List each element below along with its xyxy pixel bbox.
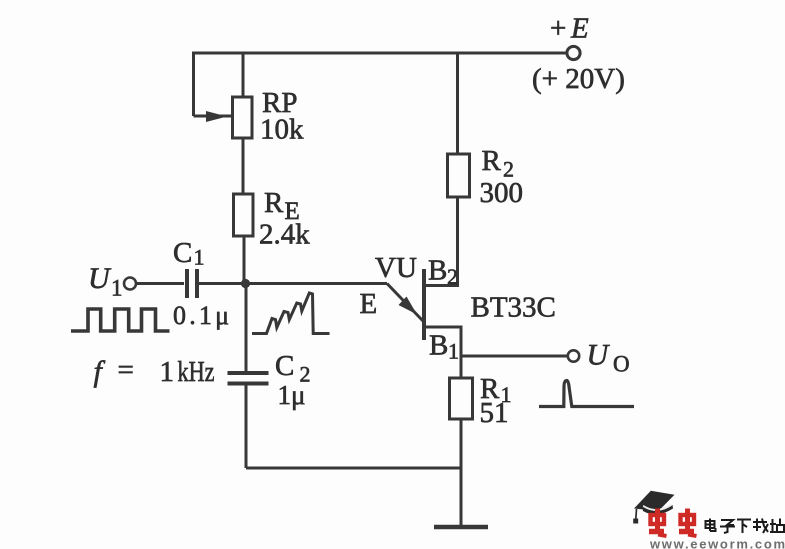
node A junction dot xyxy=(241,279,250,288)
watermark site name glyphs xyxy=(706,519,785,534)
glyph dian xyxy=(706,521,715,528)
svg-text:kHz: kHz xyxy=(178,356,215,388)
wire bottom rail xyxy=(246,467,461,470)
svg-text:+: + xyxy=(550,13,566,45)
svg-text:B: B xyxy=(428,255,447,287)
watermark chong character 2 xyxy=(679,509,697,537)
wire input to C1 xyxy=(136,282,184,285)
svg-text:B: B xyxy=(429,330,448,362)
wire B1 lead xyxy=(424,327,461,378)
transistor VU emitter lead xyxy=(387,284,423,322)
glyph zhan xyxy=(772,519,774,532)
svg-text:10k: 10k xyxy=(260,114,304,146)
potentiometer RP body xyxy=(233,97,253,138)
potentiometer RP wiper arrowhead xyxy=(206,111,227,122)
svg-text:www.eeworm.com: www.eeworm.com xyxy=(649,537,785,549)
svg-text:2: 2 xyxy=(447,264,458,289)
cap tassel xyxy=(635,509,638,519)
svg-text:=: = xyxy=(118,354,134,386)
svg-text:1: 1 xyxy=(194,245,205,270)
wire RP branch top xyxy=(242,53,245,97)
svg-text:O: O xyxy=(613,352,630,377)
output pulse waveform symbol xyxy=(539,381,634,407)
svg-text:R: R xyxy=(482,145,502,177)
svg-text:C: C xyxy=(173,237,192,269)
svg-text:1: 1 xyxy=(160,356,175,388)
wire left feedback vertical xyxy=(192,53,195,116)
output terminal UO circle xyxy=(568,350,579,361)
glyph zi xyxy=(721,520,734,525)
sawtooth waveform symbol xyxy=(252,293,330,334)
svg-text:1: 1 xyxy=(448,339,459,364)
svg-text:U: U xyxy=(587,339,611,372)
svg-text:51: 51 xyxy=(480,397,509,429)
svg-text:BT33C: BT33C xyxy=(471,292,556,324)
wire node A down to C2 xyxy=(245,284,248,372)
resistor R2 body xyxy=(448,154,470,197)
transistor VU base bar xyxy=(422,269,426,340)
svg-text:1: 1 xyxy=(111,276,123,301)
input square wave symbol xyxy=(71,309,170,331)
svg-text:VU: VU xyxy=(375,252,417,284)
capacitor C1 plates xyxy=(187,269,197,298)
svg-text:(+ 20V): (+ 20V) xyxy=(532,63,625,95)
wire output tap xyxy=(461,355,568,358)
input terminal U1 circle xyxy=(124,278,136,290)
svg-text:2.4k: 2.4k xyxy=(259,219,310,251)
wire B2 lead xyxy=(424,197,458,286)
resistor RE body xyxy=(234,194,254,236)
wire R2 top lead xyxy=(456,53,459,154)
glyph zai xyxy=(753,521,767,523)
wire RP to RE xyxy=(242,138,245,194)
svg-text:E: E xyxy=(570,13,589,45)
watermark chong character 1 xyxy=(649,509,667,537)
wire RP wiper lead xyxy=(194,115,232,118)
watermark graduation cap icon xyxy=(633,491,674,524)
svg-text:0.1μ: 0.1μ xyxy=(173,301,232,330)
wire C2 to bottom rail xyxy=(245,385,248,468)
wire R1 bottom to ground xyxy=(460,419,463,526)
wire RE to node A xyxy=(243,236,246,283)
svg-text:1μ: 1μ xyxy=(278,380,306,410)
capacitor C2 plates xyxy=(228,373,269,384)
resistor R1 body xyxy=(450,378,473,419)
svg-text:E: E xyxy=(360,288,378,320)
svg-text:300: 300 xyxy=(480,177,524,209)
glyph xia xyxy=(737,519,751,521)
svg-text:C: C xyxy=(275,350,294,382)
transistor VU emitter arrowhead xyxy=(399,297,418,315)
svg-text:f: f xyxy=(94,355,106,388)
supply terminal +E circle xyxy=(567,46,580,59)
wire top supply bus xyxy=(192,52,567,55)
wire C1 to emitter xyxy=(199,282,387,285)
svg-text:R: R xyxy=(264,187,284,219)
ground xyxy=(434,525,488,530)
svg-text:U: U xyxy=(88,262,112,295)
